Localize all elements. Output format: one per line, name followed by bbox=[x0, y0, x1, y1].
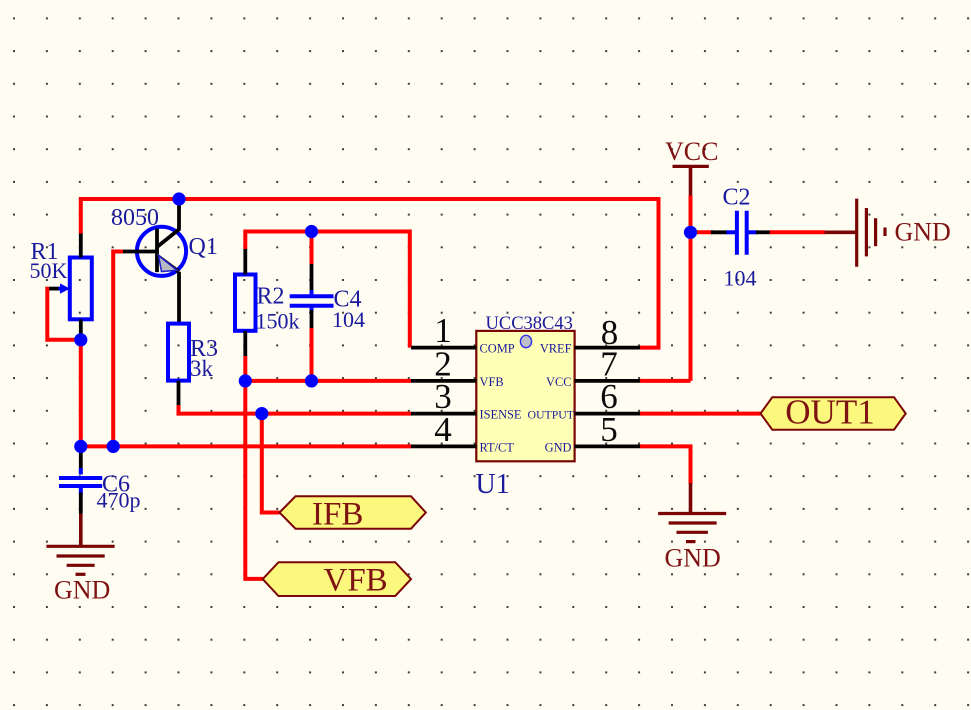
svg-text:VCC: VCC bbox=[665, 137, 718, 166]
svg-text:R2: R2 bbox=[257, 284, 285, 310]
svg-text:GND: GND bbox=[665, 544, 721, 573]
svg-text:VFB: VFB bbox=[480, 375, 504, 389]
capacitor C4 bbox=[290, 262, 334, 330]
svg-text:5: 5 bbox=[600, 410, 618, 449]
wire pin6 to OUT1 bbox=[640, 412, 761, 416]
svg-text:OUT1: OUT1 bbox=[785, 393, 874, 432]
part U1 UCC38C43 bbox=[476, 331, 574, 461]
wire C4 top bbox=[310, 232, 314, 265]
pin 2 VFB bbox=[411, 379, 476, 383]
svg-text:RT/CT: RT/CT bbox=[480, 440, 515, 454]
power VCC bbox=[673, 166, 709, 196]
wire VCC column bbox=[689, 196, 693, 381]
svg-text:U1: U1 bbox=[476, 469, 510, 500]
junction pin2 VFB tap bbox=[239, 374, 252, 387]
svg-text:104: 104 bbox=[724, 266, 757, 291]
pin 4 RT/CT bbox=[411, 444, 476, 448]
pin 7 VCC bbox=[575, 379, 640, 383]
wire C4 bottom to pin2 net bbox=[310, 328, 314, 381]
pin 6 OUTPUT bbox=[575, 412, 640, 416]
wire C2 to ground (right) bbox=[770, 230, 825, 234]
svg-text:C2: C2 bbox=[723, 185, 751, 211]
svg-text:50K: 50K bbox=[30, 258, 68, 283]
svg-text:150k: 150k bbox=[256, 309, 300, 334]
svg-text:VREF: VREF bbox=[540, 342, 572, 356]
junction pin4 R1 column bbox=[74, 440, 87, 453]
pin 5 GND bbox=[575, 444, 640, 448]
ground GND (bottom right) bbox=[658, 514, 726, 542]
wire Q1 base to pin4 net bbox=[113, 252, 123, 447]
wire VFB drop bbox=[245, 381, 262, 579]
svg-text:COMP: COMP bbox=[480, 342, 515, 356]
pin 1 COMP bbox=[411, 346, 476, 350]
svg-text:UCC38C43: UCC38C43 bbox=[486, 314, 573, 334]
ground GND (top right, rotated) bbox=[825, 199, 886, 267]
capacitor C2 bbox=[711, 211, 771, 255]
svg-text:104: 104 bbox=[332, 307, 365, 332]
wire pin5 to ground bbox=[640, 446, 691, 484]
wire R1 wiper to bottom bbox=[47, 289, 81, 340]
wire R3 bottom to pin3 net bbox=[179, 405, 412, 414]
wire R2 bottom to pin2 net bbox=[243, 356, 247, 381]
svg-text:GND: GND bbox=[545, 440, 572, 454]
junction R1 wiper bottom bbox=[74, 333, 87, 346]
svg-text:Q1: Q1 bbox=[189, 234, 218, 260]
capacitor C6 bbox=[59, 448, 102, 514]
wire pin4 net bbox=[81, 444, 411, 448]
wire VCC junction to C2 bbox=[691, 230, 714, 234]
junction pin3 IFB tap bbox=[255, 407, 268, 420]
svg-text:GND: GND bbox=[895, 218, 951, 247]
resistor R3 bbox=[168, 324, 189, 405]
pin 3 ISENSE bbox=[411, 412, 476, 416]
resistor R1 bbox=[49, 234, 92, 341]
wire ground stub (bottom right) bbox=[689, 483, 693, 514]
junction VCC C2 bbox=[684, 226, 697, 239]
wire IFB drop bbox=[262, 414, 280, 513]
wire R1 bottom to pin4 net bbox=[79, 340, 83, 447]
svg-text:3k: 3k bbox=[190, 356, 214, 381]
ground GND (left) bbox=[46, 546, 114, 574]
wire pin7 to VCC column bbox=[640, 379, 691, 383]
transistor Q1 bbox=[123, 201, 187, 324]
port VFB bbox=[263, 562, 411, 598]
wire COMP top rail bbox=[245, 232, 409, 348]
port IFB bbox=[280, 496, 426, 532]
svg-text:OUTPUT: OUTPUT bbox=[527, 408, 574, 422]
resistor R2 bbox=[235, 249, 256, 356]
svg-text:ISENSE: ISENSE bbox=[480, 408, 522, 422]
svg-text:IFB: IFB bbox=[312, 497, 363, 533]
pin 8 VREF bbox=[575, 346, 640, 350]
svg-text:470p: 470p bbox=[97, 488, 141, 513]
port OUT1 bbox=[761, 393, 906, 432]
svg-text:4: 4 bbox=[434, 410, 452, 449]
junction top rail Q1 collector bbox=[172, 192, 185, 205]
svg-text:VFB: VFB bbox=[324, 563, 388, 599]
svg-text:8050: 8050 bbox=[111, 205, 159, 231]
wire net VREF top rail bbox=[81, 199, 659, 348]
junction pin2 C4 bottom bbox=[305, 374, 318, 387]
svg-text:GND: GND bbox=[54, 576, 110, 605]
svg-text:VCC: VCC bbox=[546, 375, 571, 389]
junction C4 R2 top bbox=[305, 225, 318, 238]
wire pin2 net bbox=[245, 379, 411, 383]
wire C6 to ground bbox=[79, 514, 83, 547]
junction pin4 Q1 base column bbox=[107, 440, 120, 453]
